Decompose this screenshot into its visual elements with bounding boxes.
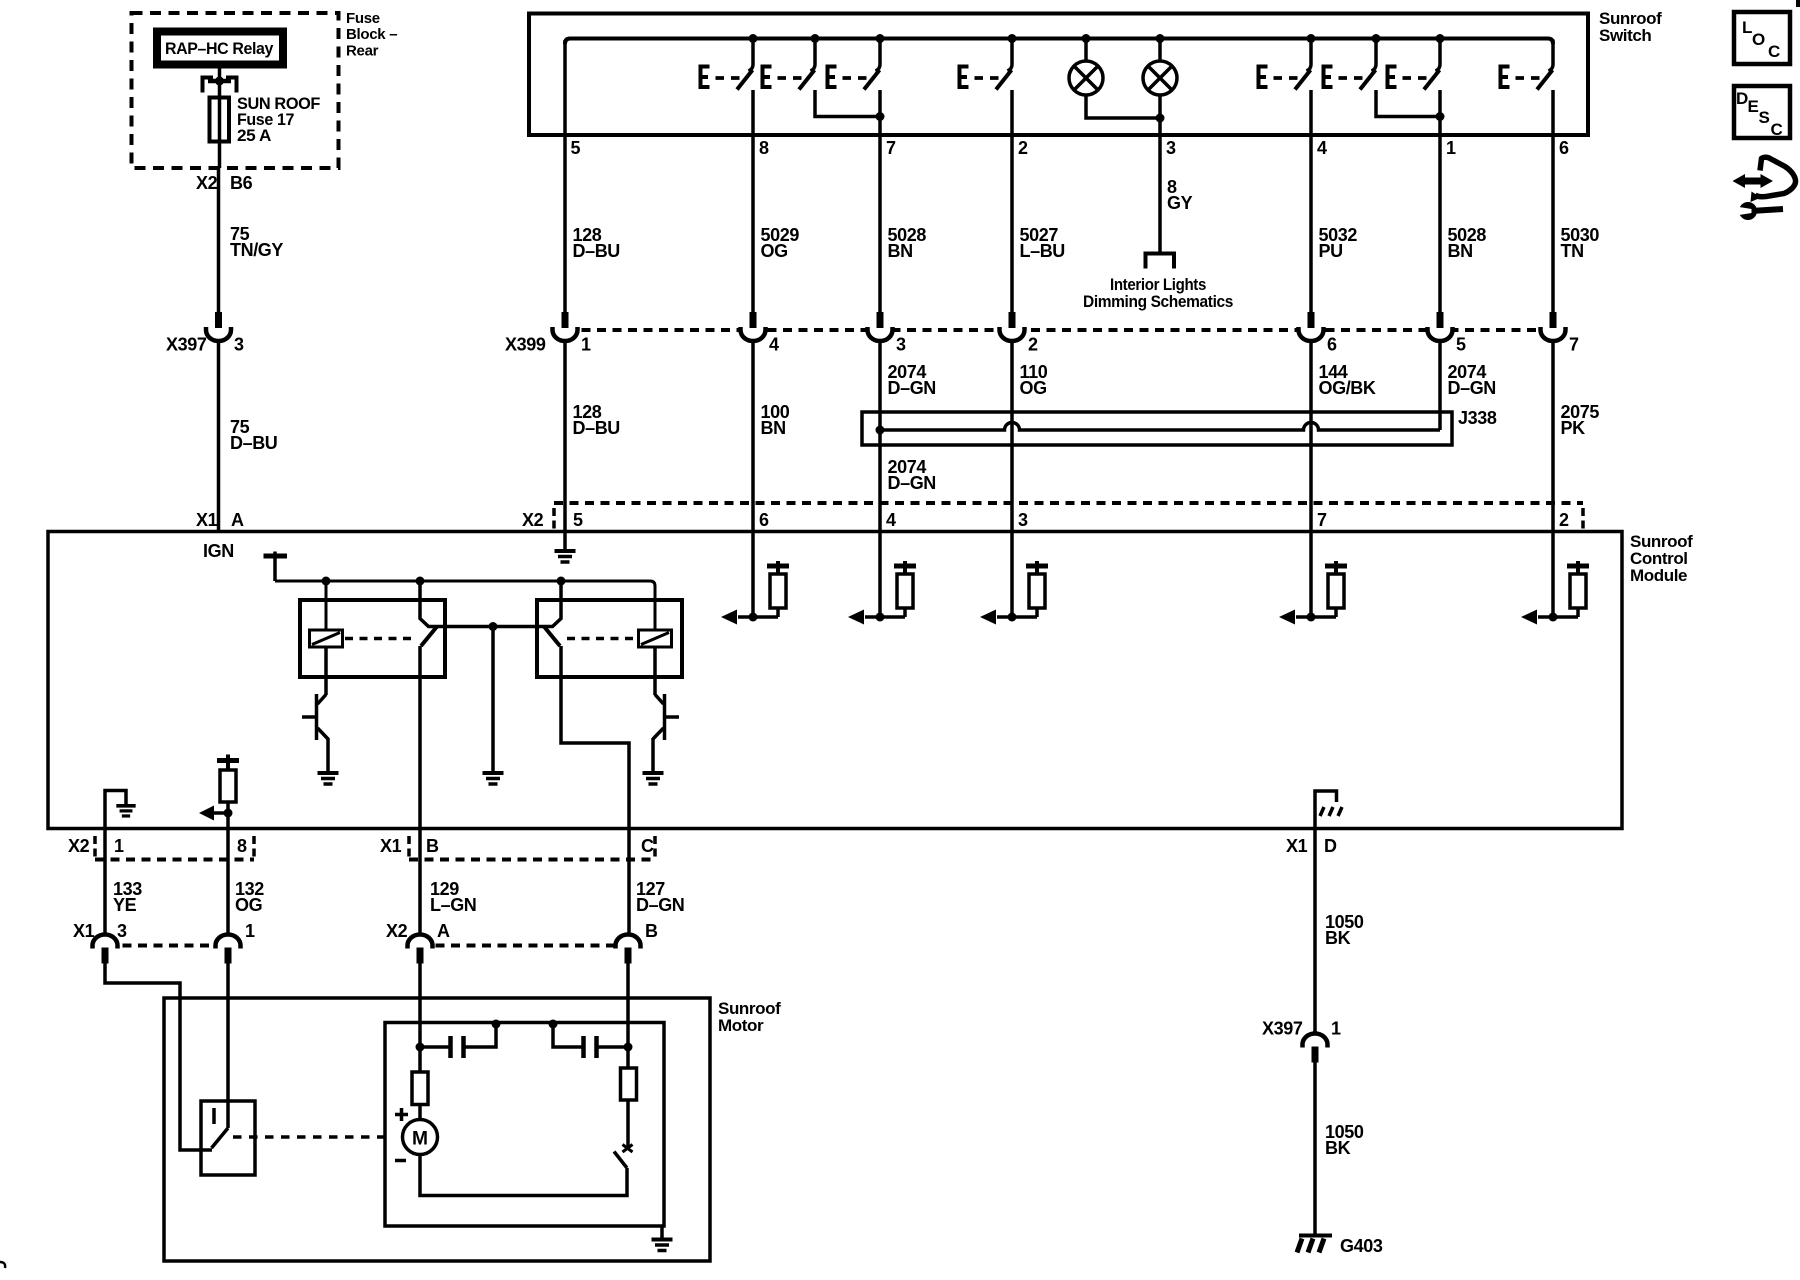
connector cup — [93, 935, 118, 964]
svg-text:C: C — [1771, 120, 1783, 139]
lamp — [1069, 61, 1103, 95]
switch S3 pin7 — [828, 40, 881, 90]
svg-text:YE: YE — [113, 895, 137, 915]
junction — [1436, 34, 1445, 43]
junction — [1372, 34, 1381, 43]
svg-text:D–BU: D–BU — [573, 241, 620, 261]
wire — [400, 1108, 404, 1121]
K1 coil link dashes — [345, 637, 414, 641]
svg-text:S: S — [1759, 108, 1770, 127]
svg-text:Switch: Switch — [1599, 26, 1651, 45]
pin8 wire column — [751, 90, 755, 313]
transistor Q2 — [663, 694, 667, 740]
switch S5 pin4 — [1259, 40, 1312, 90]
svg-text:X399: X399 — [505, 335, 546, 355]
connector X397 pin 1 — [1303, 1034, 1328, 1063]
svg-text:4: 4 — [886, 510, 896, 530]
junction — [811, 34, 820, 43]
svg-text:2: 2 — [1018, 138, 1028, 158]
connector cup — [408, 935, 433, 964]
sunroof control module box — [48, 532, 1622, 829]
connector cup — [616, 935, 641, 964]
wire — [1313, 1062, 1317, 1234]
ground — [483, 773, 504, 784]
wire — [655, 695, 664, 705]
arrowhead — [1751, 192, 1762, 203]
wire — [324, 647, 328, 695]
lamp L2 wire to staple — [1158, 95, 1162, 254]
connector cup — [1541, 312, 1566, 341]
dashed line — [653, 836, 657, 857]
minus mark — [395, 1159, 406, 1163]
svg-text:L: L — [1742, 18, 1752, 37]
wire — [1438, 341, 1442, 430]
svg-text:B6: B6 — [230, 173, 253, 193]
relay RAP-HC — [157, 32, 283, 65]
wire — [318, 695, 327, 705]
junction — [624, 1043, 633, 1052]
fuse clip right — [226, 78, 237, 93]
svg-text:L–GN: L–GN — [430, 895, 476, 915]
switch S7 pin1 — [1388, 40, 1441, 90]
svg-text:X2: X2 — [68, 836, 90, 856]
inner box ground — [660, 1226, 664, 1238]
svg-text:PK: PK — [1561, 418, 1586, 438]
wire — [627, 828, 631, 935]
arrowhead — [1761, 174, 1774, 188]
svg-text:B: B — [645, 921, 658, 941]
svg-text:7: 7 — [1569, 335, 1579, 355]
svg-text:7: 7 — [886, 138, 896, 158]
sunroof motor box — [164, 998, 710, 1261]
X2 bottom connector row (pins 1,8) — [95, 858, 254, 862]
junction — [1082, 34, 1091, 43]
svg-text:D: D — [1324, 836, 1337, 856]
K2 coil link dashes — [567, 637, 636, 641]
wire relay to fuse — [218, 69, 222, 98]
junction — [876, 112, 885, 121]
off-page staple symbol — [1146, 254, 1175, 269]
X399 cups — [553, 312, 578, 341]
pin6 wire column — [1551, 90, 1555, 313]
switch bus bar — [565, 39, 1553, 45]
svg-text:3: 3 — [1166, 138, 1176, 158]
svg-text:8: 8 — [759, 138, 769, 158]
motor inner box — [385, 1023, 664, 1227]
wire — [665, 715, 680, 719]
svg-text:5: 5 — [571, 138, 581, 158]
svg-text:D–GN: D–GN — [888, 473, 936, 493]
svg-text:1: 1 — [581, 335, 591, 355]
pullup at pin 3 — [980, 561, 1048, 625]
junction — [1156, 114, 1165, 123]
wire — [213, 811, 228, 815]
thermal switch lever — [614, 1152, 627, 1169]
switch S8 pin6 — [1501, 40, 1554, 90]
K2 output wire to pin C — [561, 646, 629, 828]
capacitor C2 — [549, 1020, 558, 1029]
wire X2-A down — [418, 963, 422, 1073]
pullup at pin 7 — [1279, 561, 1347, 625]
relay K1 coil — [310, 630, 343, 647]
wire — [653, 728, 664, 739]
dashed line — [1581, 508, 1585, 529]
relay common wire — [420, 583, 561, 627]
svg-text:X2: X2 — [386, 921, 408, 941]
svg-text:TN/GY: TN/GY — [230, 240, 283, 260]
svg-text:Block –: Block – — [346, 26, 397, 43]
motor M — [418, 1105, 422, 1120]
junction — [416, 577, 425, 586]
svg-text:L–BU: L–BU — [1020, 241, 1065, 261]
svg-text:3: 3 — [234, 335, 244, 355]
svg-text:BN: BN — [1448, 241, 1473, 261]
dashed line — [552, 508, 556, 529]
dashed line — [93, 836, 97, 857]
pin1 wire column — [1438, 90, 1442, 313]
limit switch box — [201, 1101, 255, 1175]
svg-text:D: D — [1736, 89, 1748, 108]
relay K2 box — [537, 600, 682, 677]
connector cup — [741, 312, 766, 341]
wire — [218, 97, 222, 168]
DESC icon box — [1734, 86, 1790, 138]
transistor Q1 — [315, 694, 319, 740]
wire — [226, 755, 230, 771]
X1 motor connector row (pins 3,1) — [107, 944, 228, 948]
svg-text:M: M — [412, 1129, 428, 1150]
wire — [581, 1036, 586, 1058]
svg-text:C: C — [1768, 42, 1780, 61]
ground — [652, 1240, 673, 1251]
svg-text:6: 6 — [1559, 138, 1569, 158]
wire — [1010, 341, 1014, 617]
wire — [878, 341, 882, 617]
capacitor C1 — [420, 1045, 449, 1049]
plus mark — [395, 1113, 408, 1117]
ground at X2-5 entry — [563, 532, 567, 550]
svg-text:3: 3 — [117, 921, 127, 941]
svg-text:A: A — [437, 921, 450, 941]
svg-text:Dimming Schematics: Dimming Schematics — [1083, 292, 1233, 311]
position I mark — [212, 1108, 216, 1124]
motor bottom wire — [420, 1155, 627, 1196]
junction — [557, 577, 566, 586]
wire — [1755, 157, 1796, 196]
svg-text:6: 6 — [759, 510, 769, 530]
svg-text:X1: X1 — [380, 836, 402, 856]
svg-text:7: 7 — [1317, 510, 1327, 530]
junction — [215, 77, 224, 86]
svg-text:X2: X2 — [196, 173, 218, 193]
svg-text:OG/BK: OG/BK — [1319, 378, 1376, 398]
limit switch lever — [212, 1128, 229, 1148]
dashed line — [252, 836, 256, 857]
svg-text:4: 4 — [1317, 138, 1327, 158]
svg-text:Module: Module — [1630, 566, 1687, 585]
resistor R1 on A — [412, 1072, 428, 1105]
resistor R2 on B — [621, 1068, 637, 1100]
connector cup — [1000, 312, 1025, 341]
junction — [322, 577, 331, 586]
svg-text:1: 1 — [114, 836, 124, 856]
svg-text:Fuse: Fuse — [346, 10, 380, 27]
sunroof switch box — [529, 14, 1588, 136]
svg-text:1: 1 — [245, 921, 255, 941]
svg-text:J338: J338 — [1458, 408, 1497, 428]
K2 contact lever — [544, 627, 560, 647]
pin4 wire column — [1309, 90, 1313, 313]
navigation arrows icon — [1733, 157, 1796, 220]
svg-text:PU: PU — [1319, 241, 1343, 261]
junction — [416, 1043, 425, 1052]
svg-text:5: 5 — [1456, 335, 1466, 355]
junction — [876, 34, 885, 43]
wire — [325, 581, 328, 630]
wire — [751, 341, 755, 617]
svg-text:OG: OG — [1020, 378, 1047, 398]
ground hook at X2-1 — [105, 791, 126, 829]
wire — [1551, 341, 1555, 617]
wire — [326, 738, 330, 771]
svg-text:D–BU: D–BU — [573, 418, 620, 438]
internal supply bus — [275, 581, 655, 630]
svg-text:X397: X397 — [166, 335, 207, 355]
svg-text:6: 6 — [1327, 335, 1337, 355]
wire X397 to module — [217, 341, 221, 532]
wire X1-3 to limit switch — [105, 963, 212, 1151]
wire — [318, 728, 329, 739]
contact star mark — [623, 1145, 633, 1153]
svg-text:X2: X2 — [522, 510, 544, 530]
svg-text:A: A — [231, 510, 244, 530]
junction — [1307, 34, 1316, 43]
fuse clip left — [203, 78, 214, 93]
wire — [1086, 95, 1160, 118]
splice wire with hops — [880, 423, 1440, 430]
S2 lower route to pin7 wire — [815, 90, 880, 117]
svg-text:D–GN: D–GN — [888, 378, 936, 398]
K1 output wire to pin B — [418, 646, 422, 828]
connector cup — [1299, 312, 1324, 341]
wire — [1742, 178, 1764, 185]
pin8 inline pullup — [217, 758, 239, 763]
svg-text:8: 8 — [237, 836, 247, 856]
splice junction dot — [876, 426, 885, 435]
svg-text:OG: OG — [761, 241, 788, 261]
junction — [1008, 34, 1017, 43]
svg-text:C: C — [641, 836, 654, 856]
svg-text:D–GN: D–GN — [636, 895, 684, 915]
X2 motor connector row (pins A,B) — [420, 944, 628, 948]
pin2 wire column — [1010, 90, 1014, 313]
svg-text:B: B — [426, 836, 439, 856]
relay K2 coil — [639, 630, 672, 647]
bus junction dots — [749, 34, 758, 43]
corner mark bottom left — [0, 1262, 5, 1268]
svg-text:O: O — [1752, 30, 1765, 49]
wire — [273, 552, 277, 582]
svg-text:OG: OG — [235, 895, 262, 915]
wire — [594, 1036, 599, 1058]
switch S6 — [1324, 40, 1377, 90]
svg-text:X1: X1 — [73, 921, 95, 941]
svg-text:D–BU: D–BU — [230, 433, 277, 453]
chassis ground hook at X1-D — [1315, 791, 1337, 828]
splice J338 box — [862, 412, 1452, 445]
svg-text:RAP–HC Relay: RAP–HC Relay — [165, 39, 274, 58]
wire — [1736, 207, 1752, 216]
S6 lower route to pin1 wire — [1376, 90, 1440, 117]
wire X2-B down — [626, 963, 630, 1149]
wire — [653, 647, 657, 695]
wires module to lower cups — [103, 828, 107, 935]
wires X399 to module/J338 — [563, 341, 567, 532]
wire — [623, 1145, 633, 1153]
corner mark top right — [1796, 0, 1800, 7]
LOC icon box — [1734, 12, 1790, 64]
wire — [491, 627, 495, 772]
svg-text:X397: X397 — [1262, 1019, 1303, 1039]
wire — [1309, 341, 1313, 617]
wire — [553, 1024, 582, 1047]
pullup at pin 6 — [721, 561, 789, 625]
svg-text:GY: GY — [1167, 193, 1193, 213]
svg-text:Motor: Motor — [718, 1016, 764, 1035]
pullup at pin 4 — [848, 561, 916, 625]
wire — [226, 828, 230, 935]
mechanical link dashes — [233, 1135, 392, 1139]
resistor — [220, 770, 236, 802]
wire fuse to X397 — [217, 168, 221, 313]
ground — [643, 773, 664, 784]
pullup at pin 2 — [1521, 561, 1589, 625]
svg-text:IGN: IGN — [203, 541, 234, 561]
svg-text:X1: X1 — [196, 510, 218, 530]
switch S1 pin8 — [701, 40, 754, 90]
svg-text:3: 3 — [896, 335, 906, 355]
wire — [651, 738, 655, 771]
K1 contact lever — [421, 627, 437, 647]
ground — [555, 551, 576, 562]
svg-text:1: 1 — [1446, 138, 1456, 158]
switch S2 — [763, 40, 816, 90]
svg-text:25 A: 25 A — [237, 126, 271, 145]
fuse block rear dashed box — [132, 13, 339, 168]
wire — [1755, 209, 1783, 211]
svg-text:1: 1 — [1331, 1019, 1341, 1039]
wire — [302, 715, 317, 719]
wire — [1313, 922, 1317, 1034]
pin5 wire column — [563, 40, 567, 313]
b+ feed symbol — [264, 554, 288, 559]
svg-text:5: 5 — [573, 510, 583, 530]
connector cup — [216, 935, 241, 964]
arrowhead — [1733, 174, 1746, 188]
junction — [1436, 112, 1445, 121]
dashed line — [407, 836, 411, 857]
fuse clip bar — [208, 79, 231, 84]
wire — [461, 1036, 466, 1058]
svg-text:G403: G403 — [1340, 1236, 1383, 1256]
X2 module connector dashed row — [554, 501, 1583, 505]
svg-text:BK: BK — [1325, 1138, 1351, 1158]
ground G403 — [1299, 1234, 1332, 1238]
pin7 wire column — [878, 90, 882, 313]
svg-text:X1: X1 — [1286, 836, 1308, 856]
connector cup — [1428, 312, 1453, 341]
svg-text:2: 2 — [1559, 510, 1569, 530]
X399 connector row dashed line — [566, 328, 1566, 332]
switch S4 pin2 — [960, 40, 1013, 90]
ground — [318, 773, 339, 784]
wire — [448, 1036, 453, 1058]
connector cup — [868, 312, 893, 341]
wire X1-1 to limit switch — [226, 963, 230, 1129]
junction — [492, 1020, 501, 1029]
lamp L1 — [1084, 39, 1088, 62]
right column: X1-D to G403 — [1313, 828, 1317, 922]
connector X397 pin 3 — [206, 312, 231, 341]
svg-text:TN: TN — [1561, 241, 1584, 261]
relay K1 box — [300, 600, 445, 677]
X1 bottom connector row (pins B,C) — [409, 858, 655, 862]
wire — [599, 1045, 629, 1049]
svg-text:3: 3 — [1018, 510, 1028, 530]
lamp — [1143, 61, 1177, 95]
wire — [466, 1024, 497, 1047]
svg-text:4: 4 — [769, 335, 779, 355]
center ground junction — [489, 622, 498, 631]
wire — [418, 828, 422, 935]
fuse SUN ROOF 25A — [210, 98, 230, 142]
svg-text:BN: BN — [888, 241, 913, 261]
wire — [226, 802, 230, 828]
svg-text:E: E — [1748, 97, 1759, 116]
junction — [1156, 34, 1165, 43]
lamp L2 — [1158, 39, 1162, 62]
svg-text:D–GN: D–GN — [1448, 378, 1496, 398]
svg-text:Rear: Rear — [346, 43, 379, 60]
svg-text:BN: BN — [761, 418, 786, 438]
svg-text:BK: BK — [1325, 928, 1351, 948]
svg-text:2: 2 — [1028, 335, 1038, 355]
wire — [199, 806, 214, 821]
junction — [224, 809, 233, 818]
